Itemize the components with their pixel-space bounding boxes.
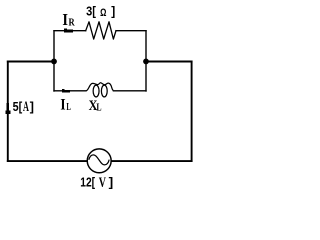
- inductor XL coil loop 2: [101, 85, 107, 97]
- wire top branch right segment: [116, 30, 146, 32]
- wire top-left horizontal to node: [8, 61, 54, 63]
- svg-text:]: ]: [111, 5, 115, 19]
- wire top branch left segment: [54, 30, 86, 32]
- svg-text:]: ]: [30, 100, 34, 114]
- arrow IR current right: [64, 28, 73, 32]
- svg-text:A: A: [23, 99, 29, 115]
- inductor XL coil loop 1: [93, 85, 99, 97]
- svg-text:]: ]: [109, 175, 114, 189]
- svg-text:V: V: [99, 175, 107, 191]
- wire bottom left segment: [8, 160, 87, 162]
- wire bottom right segment: [112, 160, 192, 162]
- svg-text:12[: 12[: [80, 175, 95, 189]
- wire inductor branch left segment: [54, 90, 86, 92]
- wire right outer vertical: [191, 62, 193, 162]
- svg-text:L: L: [96, 102, 101, 113]
- svg-text:I: I: [60, 97, 65, 114]
- wire top-right horizontal from node: [146, 61, 192, 63]
- arrow IL current right: [62, 89, 70, 92]
- AC source sine wave: [89, 155, 109, 165]
- arrow 5A current up: [5, 103, 10, 114]
- svg-text:Ω: Ω: [100, 7, 107, 19]
- AC source V circle: [87, 149, 111, 173]
- node right junction dot: [143, 59, 149, 65]
- svg-text:I: I: [62, 10, 68, 29]
- wire left inner vertical: [53, 31, 55, 91]
- resistor R 3 ohm zigzag: [86, 22, 116, 39]
- svg-text:5[: 5[: [13, 100, 23, 114]
- inductor XL coil top stroke: [86, 83, 114, 91]
- svg-text:3[: 3[: [86, 5, 97, 19]
- node left junction dot: [51, 59, 57, 65]
- wire inductor branch right segment: [113, 90, 146, 92]
- svg-text:L: L: [66, 102, 71, 113]
- wire right inner vertical: [145, 31, 147, 91]
- svg-text:R: R: [69, 18, 76, 29]
- wire left outer vertical: [7, 62, 9, 162]
